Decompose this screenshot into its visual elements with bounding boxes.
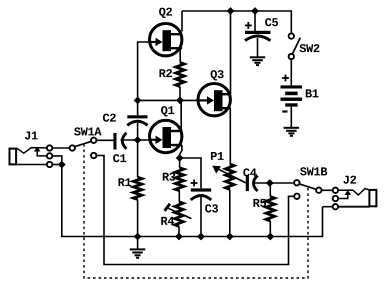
wire R1 to ground rail xyxy=(137,199,139,236)
wire top supply rail xyxy=(182,11,291,33)
battery B1 xyxy=(281,85,319,106)
wire node to R1 xyxy=(137,140,139,177)
node J1 ground junction xyxy=(58,161,66,169)
wire node to R3 xyxy=(179,158,181,168)
wire C4 to output node xyxy=(254,182,294,184)
node Q1 collector junction xyxy=(176,97,184,105)
node ground R5 xyxy=(266,233,274,241)
wire SW1A to C1 xyxy=(97,139,114,141)
jack J2 body xyxy=(369,190,376,206)
wire SW2 to B1 xyxy=(290,60,292,86)
potentiometer P1 xyxy=(211,152,234,189)
wire R5 to ground rail xyxy=(269,221,271,237)
resistor R1 xyxy=(118,177,141,199)
wire ground rail xyxy=(62,165,323,237)
node ground P1 xyxy=(226,233,234,241)
wire R2 to node xyxy=(179,87,181,101)
wire P1 to ground rail xyxy=(229,189,231,236)
wire rail to Q3 emitter xyxy=(230,11,232,94)
capacitor C1 xyxy=(113,133,126,162)
capacitor C2 xyxy=(103,114,148,126)
node rail-Q3 junction xyxy=(227,7,235,15)
ground main xyxy=(130,249,146,257)
wire Q2 base drop xyxy=(138,42,150,100)
switch SW2 xyxy=(289,33,320,59)
wire Q1 collector xyxy=(180,100,182,131)
wire Q2 collector to R2 xyxy=(179,48,181,62)
wire SW1B to J2 tip xyxy=(322,189,333,191)
wire emitter node to C3 xyxy=(180,158,201,188)
capacitor C3 xyxy=(191,180,218,213)
jack J2 contacts xyxy=(333,188,338,210)
transistor Q1 xyxy=(150,106,183,153)
resistor R3 xyxy=(163,168,184,191)
jack J1 body xyxy=(10,149,17,165)
wire dashed switch link xyxy=(84,144,308,278)
switch SW1A common xyxy=(70,127,102,150)
wire J1 sleeve to junction xyxy=(53,164,62,166)
switch SW1B lever xyxy=(299,184,316,189)
switch SW1B throw down xyxy=(294,194,299,199)
transistor Q3 xyxy=(198,70,231,116)
node Q1 emitter junction xyxy=(176,154,184,162)
resistor R5 xyxy=(253,197,274,221)
jack J2 sleeve line xyxy=(338,206,369,208)
wire bypass SW1A to SW1B xyxy=(97,156,294,265)
switch SW1A lever xyxy=(75,141,91,146)
node ground R4 xyxy=(175,233,183,241)
wire input row to Q1 base xyxy=(121,139,150,141)
wire rail to Q2 emitter xyxy=(181,11,183,32)
wire C2 to input node xyxy=(137,123,139,140)
wire C3 to ground rail xyxy=(200,197,202,237)
wire J1 ring jog xyxy=(53,156,62,165)
ground below B1 xyxy=(284,128,300,136)
label B1 plus xyxy=(282,75,289,82)
node rail-C5 junction xyxy=(251,7,259,15)
node ground C3 xyxy=(197,233,205,241)
wire Q3 collector to P1 xyxy=(229,108,231,164)
label B1 minus xyxy=(282,110,287,112)
node ground R1 xyxy=(134,233,142,241)
wire rail to ground symbol xyxy=(137,237,139,250)
wire node row to Q3 base xyxy=(138,99,198,101)
wire node to R5 xyxy=(269,183,271,197)
wiper arrow P1 to C4 xyxy=(212,166,246,183)
resistor R2 xyxy=(159,63,184,87)
wire R3 to R4 xyxy=(178,191,180,202)
wire J2 sleeve to rail xyxy=(323,206,333,208)
node Q2 base junction xyxy=(134,97,142,105)
switch SW1B throw mid xyxy=(316,188,321,193)
jack J1 tip contact xyxy=(17,132,47,154)
switch SW1A throw down xyxy=(91,153,96,158)
capacitor C4 xyxy=(243,168,257,191)
transistor Q2 xyxy=(150,8,183,56)
wire node to C2 xyxy=(137,100,139,115)
switch SW1B common xyxy=(294,167,327,185)
capacitor C5 xyxy=(245,18,278,40)
wire rail to C5 xyxy=(254,11,256,31)
switch SW1A throw up xyxy=(91,138,96,143)
jack J1 tip arrow xyxy=(34,147,47,156)
jack J2 tip contact xyxy=(338,176,369,195)
node output junction xyxy=(266,179,274,187)
wire J1 tip to SW1A xyxy=(53,147,70,149)
ground below C5 xyxy=(250,57,265,65)
trimmer R4 xyxy=(161,202,191,227)
jack J1 sleeve line xyxy=(16,164,47,166)
node input junction xyxy=(134,136,142,144)
jack J2 tip arrow xyxy=(338,190,351,198)
wire R4 to ground rail xyxy=(178,226,180,236)
wire Q1 emitter to node xyxy=(180,145,182,158)
jack J1 contacts xyxy=(47,145,52,167)
wire C5 to ground xyxy=(257,38,259,57)
wire B1 to ground xyxy=(290,107,292,128)
